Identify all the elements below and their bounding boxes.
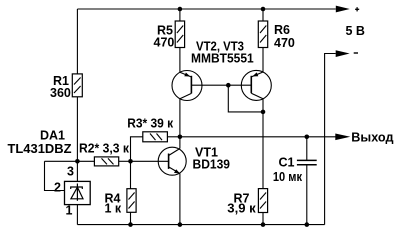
svg-text:R6: R6 (274, 23, 290, 37)
wire DA1 pin3 lead (76, 161, 78, 181)
resistor R5 (175, 21, 184, 48)
pin number 2 (54, 180, 61, 194)
capacitor C1 (297, 137, 317, 225)
wire DA1 pin1 lead (76, 205, 78, 225)
wire base-to-base (191, 84, 251, 86)
wire output line (180, 136, 336, 138)
wire minus supply line (325, 54, 336, 225)
svg-text:360: 360 (50, 86, 71, 100)
node base junction (226, 83, 231, 88)
svg-text:3: 3 (67, 165, 74, 179)
node top rail R6 (261, 7, 266, 12)
pin number 1 (66, 204, 73, 218)
wire R3 right lead (167, 136, 180, 138)
wire top +5V rail (77, 8, 335, 10)
pin number 3 (67, 165, 74, 179)
node R2 junction (128, 159, 133, 164)
svg-text:5 В: 5 В (346, 24, 365, 38)
transistor VT1 (131, 137, 187, 225)
label R3* 39 к (127, 116, 174, 130)
wire R5 top lead (179, 9, 181, 21)
label R2* 3,3 к (79, 141, 130, 155)
label C1 10 мк (273, 155, 303, 184)
label 5 В (346, 24, 365, 38)
resistor R3 (143, 132, 168, 142)
wire R6 top lead (262, 9, 264, 21)
node R1/DA1 junction (75, 159, 80, 164)
svg-text:470: 470 (274, 36, 295, 50)
transistor VT2 (172, 48, 202, 137)
label R4 1 к (105, 192, 122, 216)
wire base-to-collector step (228, 85, 263, 112)
svg-text:R3* 39 к: R3* 39 к (127, 116, 174, 130)
svg-text:1: 1 (66, 204, 73, 218)
node VT3 collector tie (261, 110, 266, 115)
label R5 470 (154, 24, 175, 50)
resistor R6 (258, 21, 267, 48)
svg-text:MMBT5551: MMBT5551 (191, 52, 254, 66)
svg-text:3,9 к: 3,9 к (227, 202, 256, 216)
node ground VT1 emitter (178, 222, 183, 227)
label VT2, VT3 MMBT5551 (191, 40, 254, 66)
shunt regulator DA1 TL431DBZ (65, 181, 91, 204)
wire R1 bottom to junction (76, 97, 78, 162)
resistor R4 (127, 189, 136, 213)
node top rail R5 (178, 7, 183, 12)
output arrow (335, 134, 350, 141)
label R1 360 (50, 74, 71, 100)
wire R7 bottom lead (262, 213, 264, 225)
wire bottom ground rail (77, 224, 324, 226)
label R6 470 (274, 23, 295, 50)
svg-text:C1: C1 (279, 155, 295, 169)
wire DA1 pin2 (45, 161, 65, 190)
label − (354, 52, 358, 54)
svg-text:10 мк: 10 мк (273, 170, 303, 184)
resistor R1 (72, 74, 82, 97)
label VT1 BD139 (193, 146, 231, 172)
node ground C1 (305, 222, 310, 227)
svg-text:R2* 3,3 к: R2* 3,3 к (79, 141, 130, 155)
resistor R2 (94, 157, 118, 166)
plus supply arrow (336, 6, 350, 13)
svg-text:470: 470 (154, 35, 175, 49)
resistor R7 (258, 189, 267, 213)
label + (355, 7, 359, 11)
wire left rail top segment (rail to R1) (76, 9, 78, 74)
node ground R4 (128, 222, 133, 227)
wire R2 line (45, 160, 95, 162)
svg-text:DA1: DA1 (40, 128, 65, 142)
node C1 tap (305, 135, 310, 140)
svg-text:BD139: BD139 (193, 157, 231, 171)
minus supply arrow (336, 50, 350, 57)
label DA1 TL431DBZ (8, 128, 72, 156)
node output left junction (178, 135, 183, 140)
wire R3 left lead (131, 137, 143, 162)
svg-text:TL431DBZ: TL431DBZ (8, 142, 72, 156)
wire R2 right lead (119, 160, 131, 162)
svg-text:2: 2 (54, 180, 61, 194)
wire R4 top lead (130, 161, 132, 188)
svg-text:Выход: Выход (351, 131, 393, 145)
label Выход (351, 131, 393, 145)
wire R4 bottom lead (130, 212, 132, 224)
label R7 3,9 к (227, 192, 256, 216)
svg-text:1 к: 1 к (105, 202, 122, 216)
transistor VT3 (241, 47, 271, 189)
node ground R7 (261, 222, 266, 227)
